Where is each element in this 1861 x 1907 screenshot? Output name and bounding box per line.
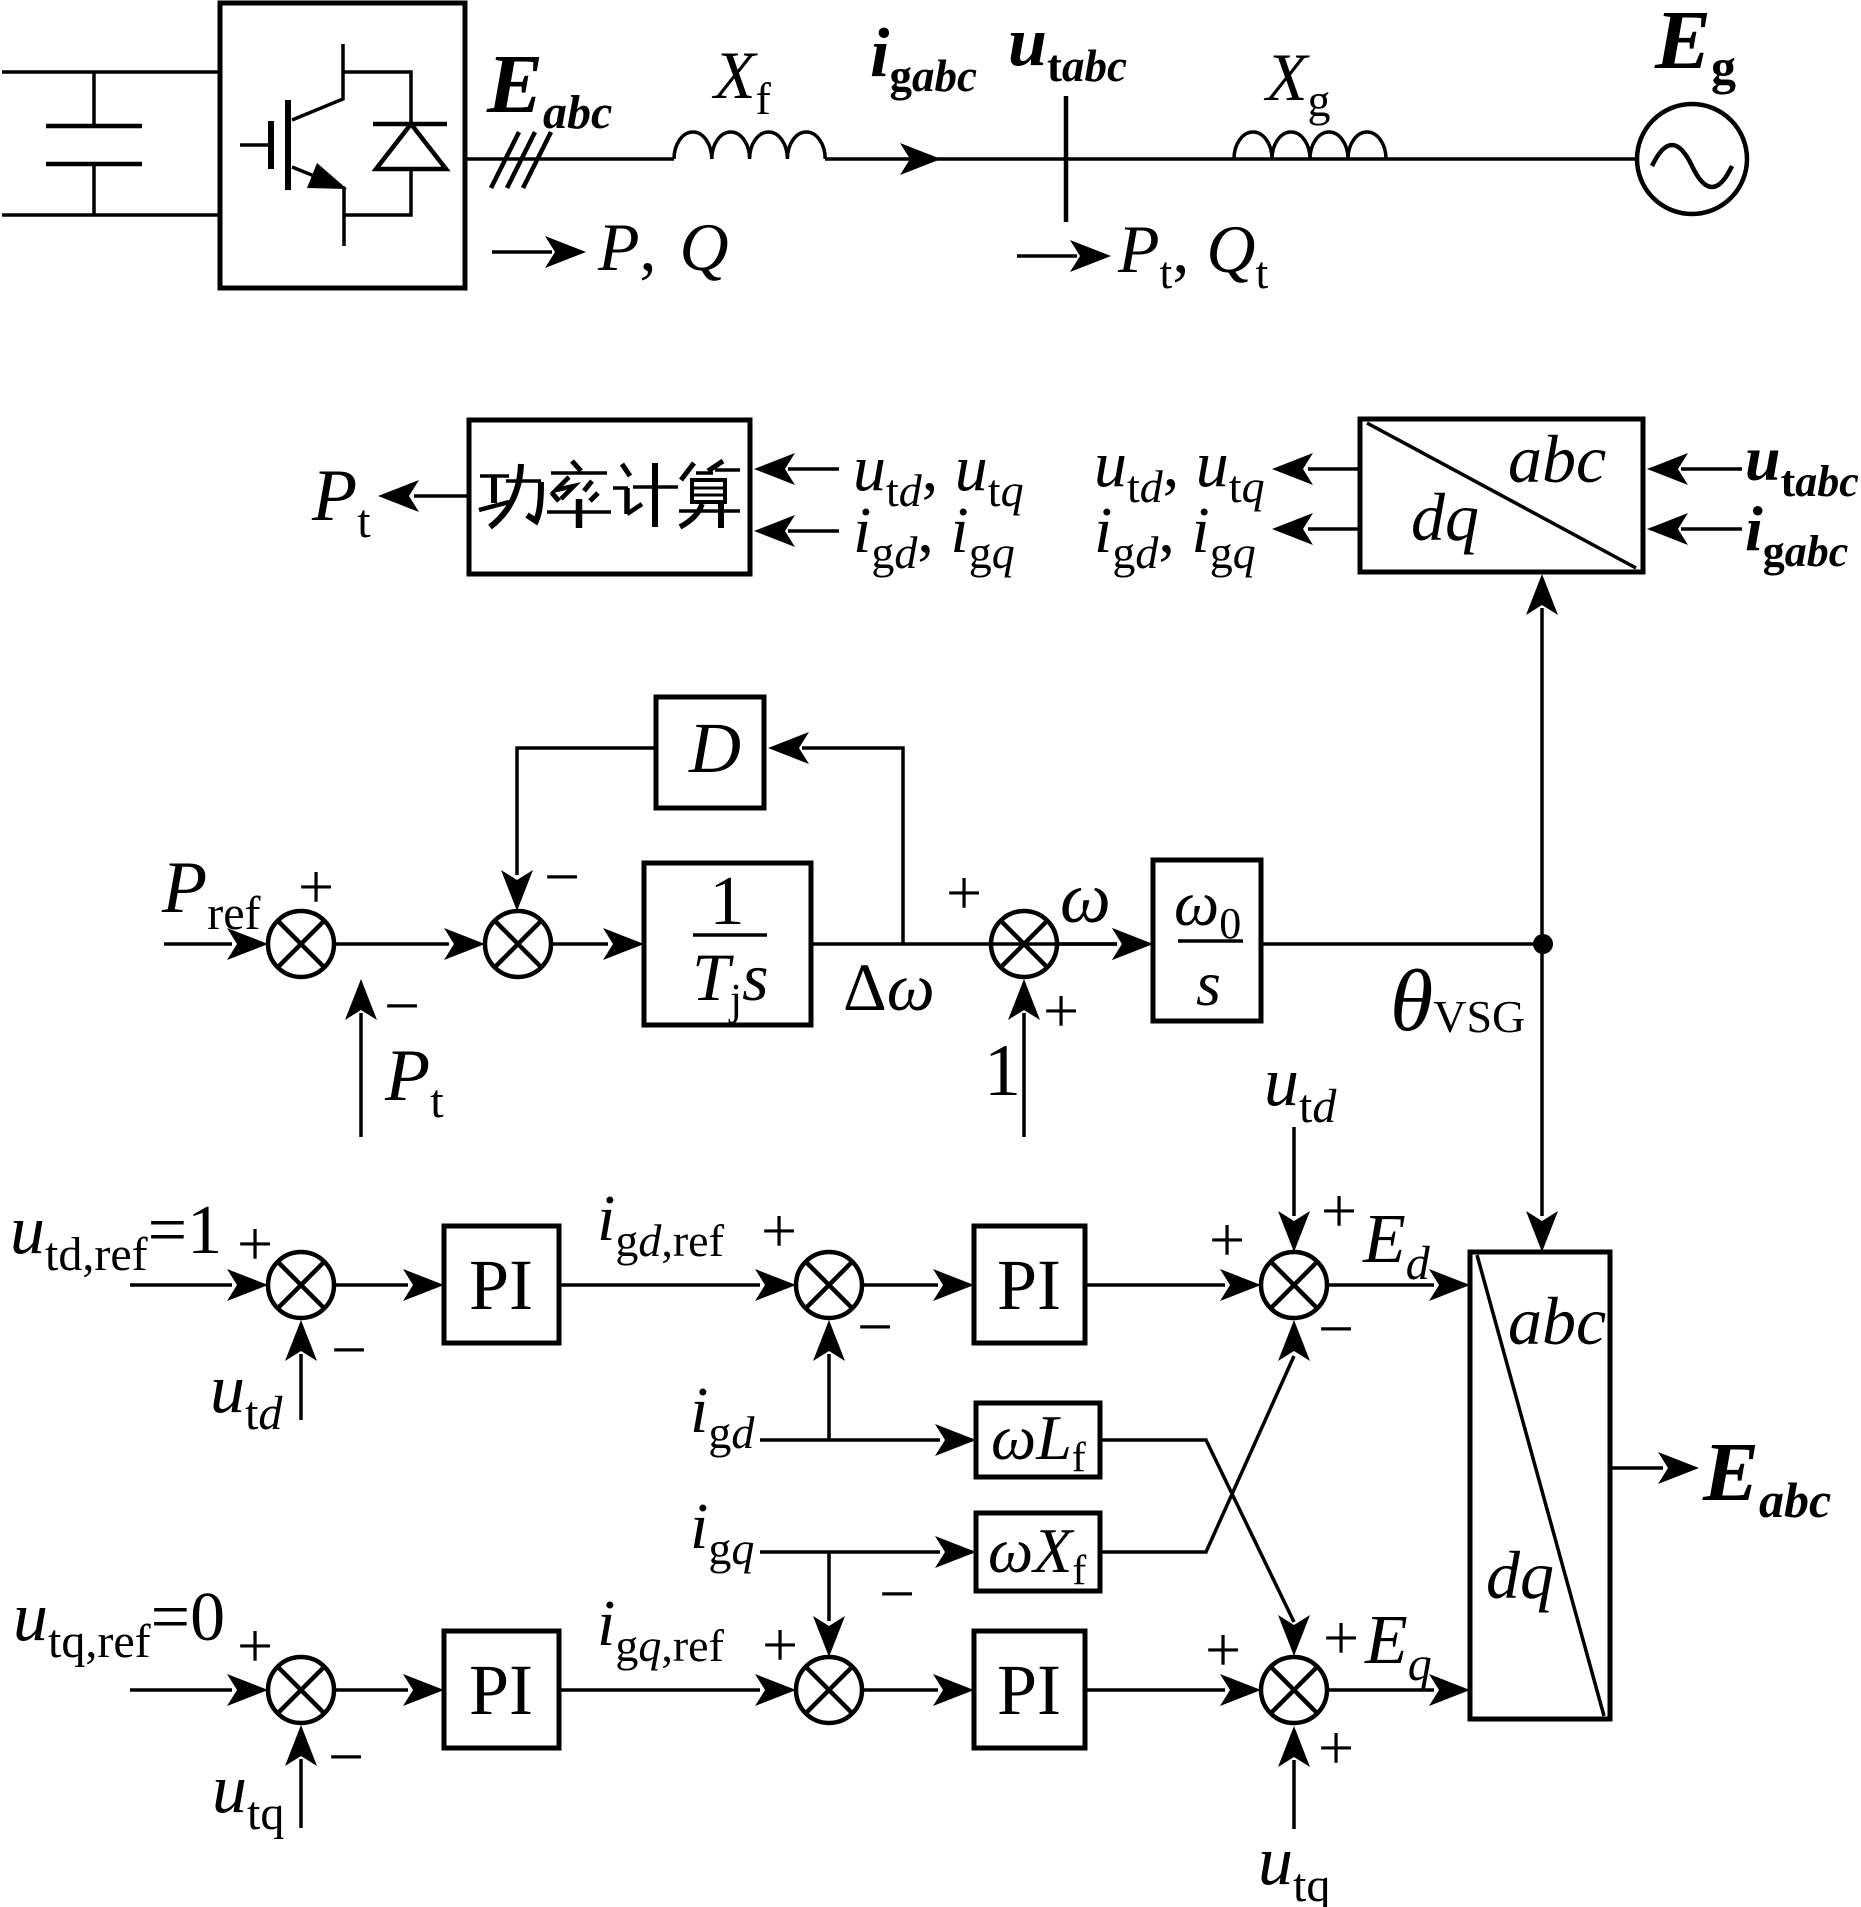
- summing junction S3: [991, 911, 1057, 977]
- wire Pref input: [164, 942, 232, 946]
- summing junction S7: [268, 1657, 334, 1723]
- block omega0/s: [1153, 860, 1261, 1021]
- wire S8' to PI4: [862, 1688, 938, 1692]
- svg-text:+: +: [761, 1195, 797, 1266]
- svg-text:PI: PI: [997, 1650, 1061, 1730]
- summing junction S8 (Eq): [1261, 1657, 1327, 1723]
- summing junction S6: [1261, 1252, 1327, 1318]
- svg-text:s: s: [1196, 948, 1221, 1019]
- wire S1 to S2: [334, 942, 449, 946]
- wire utd,ref input: [130, 1283, 232, 1287]
- svg-text:Pt: Pt: [311, 455, 371, 548]
- wire DC bus top: [2, 70, 220, 74]
- svg-text:+: +: [1043, 975, 1079, 1046]
- three-phase slash marks: [491, 132, 551, 188]
- wire Xf to grid: [825, 157, 1637, 161]
- svg-text:−: −: [328, 1721, 364, 1792]
- wire igd up into S5: [827, 1354, 831, 1440]
- capacitor C (DC link): [46, 72, 142, 215]
- block omega Xf: [976, 1513, 1100, 1591]
- svg-text:igabc: igabc: [870, 15, 977, 101]
- block PI 1: [444, 1226, 559, 1343]
- svg-text:utq: utq: [1258, 1823, 1330, 1907]
- inductor Xf: [674, 132, 825, 159]
- svg-text:1: 1: [984, 1030, 1021, 1112]
- svg-text:PI: PI: [997, 1245, 1061, 1325]
- arrow utabc into box 1: [1681, 467, 1742, 471]
- svg-text:+: +: [1209, 1204, 1245, 1275]
- arrow igabc: [900, 143, 941, 175]
- svg-text:igq: igq: [690, 1490, 754, 1574]
- arrow igd,igq out of box 1: [1308, 527, 1360, 531]
- block PI 3: [444, 1631, 559, 1748]
- block PI 2: [974, 1226, 1085, 1343]
- wire Pt feedback up into S1: [359, 1013, 363, 1137]
- svg-text:−: −: [857, 1291, 893, 1362]
- wire PI1 to S5: [559, 1283, 760, 1287]
- svg-text:dq: dq: [1411, 479, 1479, 555]
- wire theta VSG: [1261, 942, 1542, 946]
- transistor Q1 (IGBT): [240, 44, 347, 246]
- svg-text:utq,ref=0: utq,ref=0: [13, 1579, 225, 1668]
- svg-text:Ed: Ed: [1362, 1201, 1431, 1290]
- wire utd down into S6: [1292, 1127, 1296, 1216]
- svg-text:utd: utd: [1264, 1044, 1337, 1133]
- wire utq feedback into S7: [299, 1759, 303, 1828]
- node junction dot: [1533, 934, 1553, 954]
- svg-text:ωLf: ωLf: [991, 1402, 1086, 1481]
- wire igq into omega-Xf: [760, 1550, 940, 1554]
- inductor Xg: [1234, 132, 1386, 159]
- wire feedback tap up to D: [802, 748, 903, 944]
- svg-text:−: −: [331, 1314, 367, 1385]
- summing junction S8' (igq): [796, 1657, 862, 1723]
- svg-text:+: +: [762, 1609, 798, 1680]
- svg-text:dq: dq: [1486, 1537, 1554, 1613]
- arrow utd,utq out of box 1: [1308, 467, 1360, 471]
- svg-text:1: 1: [710, 863, 745, 940]
- svg-text:Eg: Eg: [1654, 0, 1736, 95]
- summing junction S5: [796, 1252, 862, 1318]
- wire DC bus bottom: [2, 213, 220, 217]
- wire igd into omega-Lf: [760, 1438, 940, 1442]
- svg-text:D: D: [688, 708, 741, 788]
- svg-text:igd: igd: [690, 1374, 755, 1458]
- svg-text:Eabc: Eabc: [486, 38, 612, 139]
- wire Tj output to S3 with feedback tap: [811, 942, 1117, 946]
- svg-text:utq: utq: [212, 1751, 284, 1840]
- svg-text:−: −: [1318, 1293, 1354, 1364]
- summing junction S2: [485, 911, 551, 977]
- block: abc/dq transform (measurement): [1360, 419, 1643, 572]
- svg-text:Eq: Eq: [1364, 1602, 1432, 1691]
- svg-text:+: +: [1318, 1712, 1354, 1783]
- svg-text:+: +: [946, 857, 982, 928]
- wire Eabc output: [1610, 1466, 1663, 1470]
- wire S5 to PI2: [862, 1283, 938, 1287]
- svg-text:utd,ref=1: utd,ref=1: [10, 1192, 222, 1281]
- summing junction S4: [268, 1252, 334, 1318]
- svg-text:Xf: Xf: [711, 37, 772, 124]
- block: power calculation box: [469, 420, 750, 574]
- svg-text:+: +: [237, 1208, 273, 1279]
- wire D feedback into S2: [517, 748, 656, 875]
- svg-text:igq,ref: igq,ref: [597, 1587, 725, 1671]
- svg-text:+: +: [1321, 1175, 1357, 1246]
- wire S8 to box2 (Eq): [1327, 1688, 1434, 1692]
- arrow Pt,Qt flow: [1017, 254, 1077, 258]
- arrow P,Q flow: [492, 250, 552, 254]
- svg-text:Δω: Δω: [843, 949, 935, 1025]
- svg-text:−: −: [544, 841, 580, 912]
- AC source Eg: [1637, 104, 1747, 214]
- svg-text:ωXf: ωXf: [988, 1515, 1086, 1594]
- svg-text:+: +: [237, 1610, 273, 1681]
- wire utq up into S8: [1292, 1760, 1296, 1829]
- inverter box: [220, 3, 465, 288]
- wire omega-Xf cross to S6: [1100, 1356, 1294, 1552]
- arrow igd,igq into power box: [788, 529, 839, 533]
- wire S3 to omega0/s block: [1057, 942, 1117, 946]
- svg-text:utabc: utabc: [1008, 4, 1127, 91]
- arrow igabc into box 1: [1681, 527, 1742, 531]
- svg-text:Xg: Xg: [1263, 39, 1331, 126]
- block 1/(Tj s): [644, 863, 811, 1025]
- svg-text:PI: PI: [469, 1650, 533, 1730]
- wire PI2 to S6: [1085, 1283, 1225, 1287]
- wire omega-Lf cross to S8: [1100, 1440, 1294, 1622]
- diode D1 (antiparallel): [343, 72, 447, 215]
- wire inverter output Eabc: [465, 157, 674, 161]
- arrow utd,utq into power box: [788, 467, 839, 471]
- svg-text:PI: PI: [469, 1245, 533, 1325]
- svg-text:P, Q: P, Q: [597, 209, 729, 285]
- wire S7 to PI3: [334, 1688, 408, 1692]
- summing junction S1: [268, 911, 334, 977]
- wire S6 to box2 (Ed): [1327, 1283, 1434, 1287]
- svg-text:Pref: Pref: [161, 847, 260, 940]
- svg-text:θVSG: θVSG: [1390, 953, 1525, 1050]
- svg-text:ω: ω: [1060, 858, 1111, 938]
- svg-text:+: +: [1323, 1602, 1359, 1673]
- wire igq down into S8': [827, 1552, 831, 1621]
- svg-text:ω0: ω0: [1174, 868, 1241, 948]
- svg-text:abc: abc: [1508, 1283, 1606, 1359]
- block omega Lf: [976, 1403, 1100, 1477]
- wire junction up into box 1: [1540, 608, 1544, 944]
- node utabc busbar: [1064, 96, 1069, 222]
- svg-text:utd: utd: [210, 1351, 283, 1440]
- wire utd feedback into S4: [299, 1354, 303, 1420]
- svg-text:Pt: Pt: [384, 1035, 444, 1128]
- block: dq/abc inverse transform box 2: [1470, 1252, 1610, 1719]
- svg-text:Pt, Qt: Pt, Qt: [1117, 211, 1268, 298]
- label 功率计算 (power calculation) hand-drawn strokes: [479, 461, 740, 528]
- wire PI4 to S8: [1085, 1688, 1225, 1692]
- svg-text:Eabc: Eabc: [1702, 1426, 1831, 1528]
- wire S4 to PI1: [334, 1283, 408, 1287]
- arrow Pt output of power box: [414, 494, 469, 498]
- wire S2 to Tj block: [551, 942, 608, 946]
- svg-text:+: +: [1205, 1614, 1241, 1685]
- svg-text:igd,ref: igd,ref: [597, 1182, 725, 1266]
- wire PI3 to S8': [559, 1688, 760, 1692]
- wire utq,ref input: [130, 1688, 232, 1692]
- block D: [656, 697, 764, 808]
- wire 1 into S3: [1022, 1013, 1026, 1137]
- svg-text:Tjs: Tjs: [692, 939, 769, 1024]
- svg-text:−: −: [879, 1558, 915, 1629]
- svg-text:−: −: [384, 970, 420, 1041]
- wire junction down into box 2: [1540, 944, 1544, 1216]
- svg-text:abc: abc: [1508, 421, 1606, 497]
- block PI 4: [974, 1631, 1085, 1748]
